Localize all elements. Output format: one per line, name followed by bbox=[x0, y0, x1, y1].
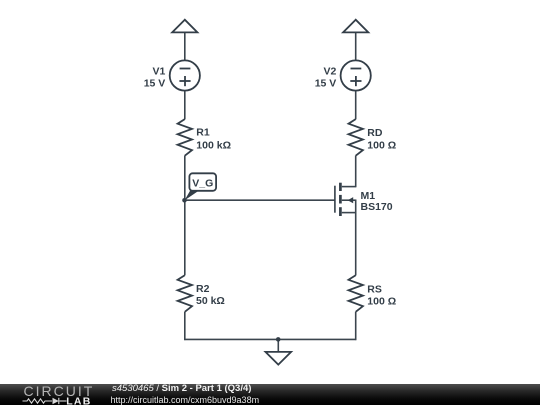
svg-text:LAB: LAB bbox=[66, 395, 91, 405]
svg-text:R1: R1 bbox=[196, 127, 210, 139]
svg-text:M1: M1 bbox=[361, 190, 376, 202]
svg-text:15 V: 15 V bbox=[315, 77, 337, 89]
svg-text:V1: V1 bbox=[152, 65, 165, 77]
svg-text:15 V: 15 V bbox=[144, 77, 166, 89]
svg-text:RD: RD bbox=[367, 127, 383, 139]
svg-text:V2: V2 bbox=[323, 65, 336, 77]
svg-text:R2: R2 bbox=[196, 283, 210, 295]
svg-text:RS: RS bbox=[367, 284, 382, 296]
svg-text:100 Ω: 100 Ω bbox=[367, 140, 396, 152]
svg-text:BS170: BS170 bbox=[361, 201, 393, 213]
svg-text:50 kΩ: 50 kΩ bbox=[196, 295, 225, 307]
svg-text:V_G: V_G bbox=[192, 178, 213, 190]
svg-text:100 kΩ: 100 kΩ bbox=[196, 140, 231, 152]
svg-text:100 Ω: 100 Ω bbox=[367, 296, 396, 308]
